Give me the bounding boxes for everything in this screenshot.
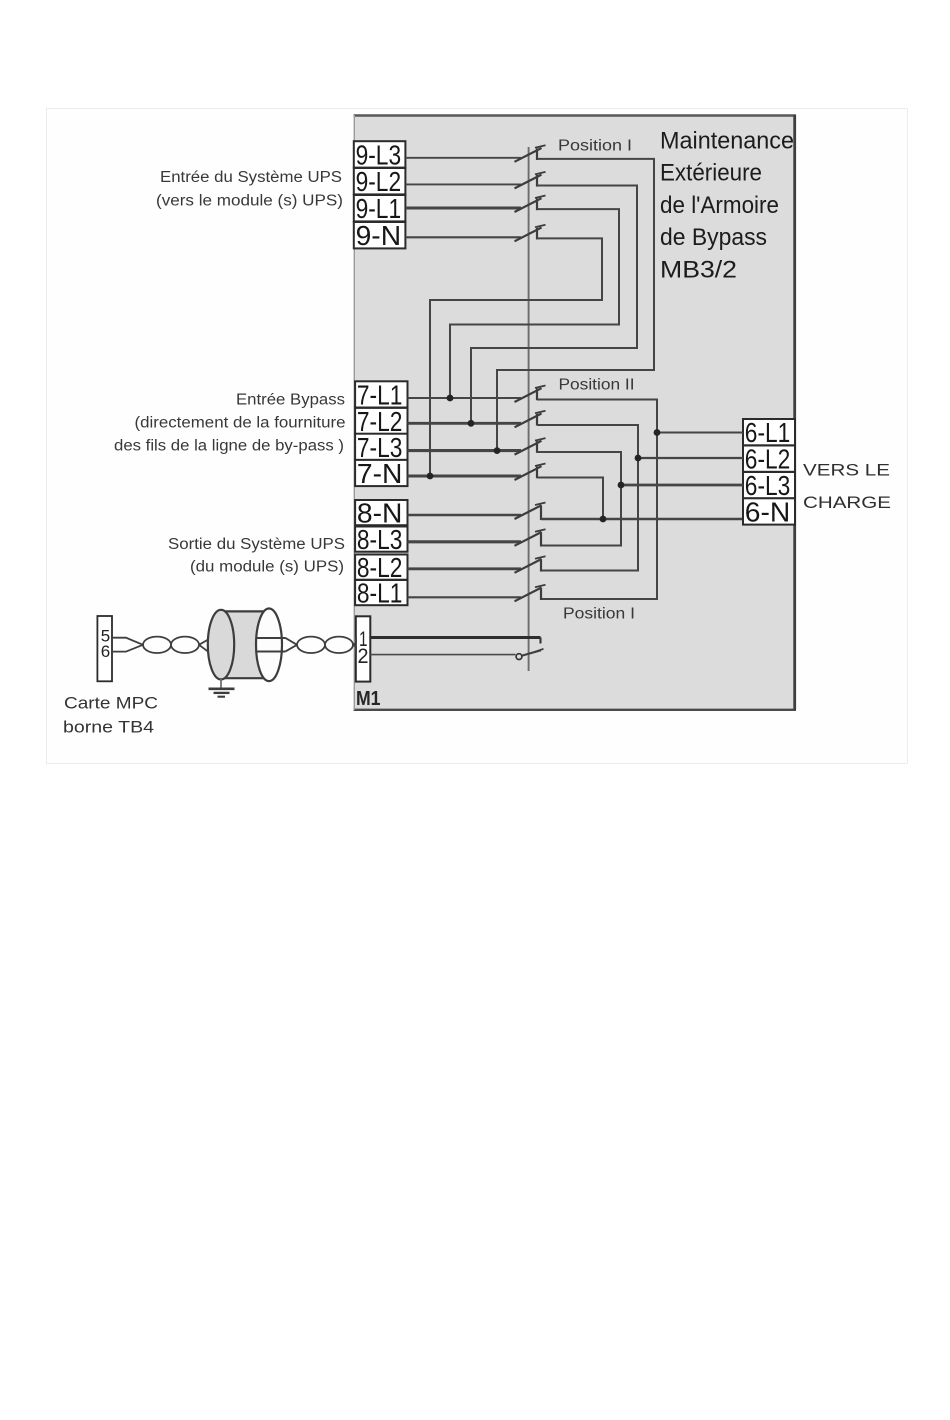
wire 8-N input <box>408 514 522 516</box>
wire 6-L1 feed <box>657 432 743 434</box>
twisted pair left, conductor A <box>112 637 209 653</box>
switch pole (8-L3 row, Position I bottom) <box>515 532 542 546</box>
wire terminal 2 to aux pivot <box>370 654 515 656</box>
terminal 7-N <box>355 460 407 486</box>
wire 8-L2 input <box>408 567 522 570</box>
wire 9-L1 to 7-L1 (crossover) <box>450 209 619 398</box>
switch pole (9-N row, Position I top) <box>515 228 542 242</box>
switch pole (7-L2 row, Position II) <box>515 414 542 428</box>
wire 9-L3 input <box>405 157 521 159</box>
bypass cabinet panel MB3/2 <box>355 115 796 710</box>
aux contact blade <box>522 650 541 655</box>
svg-text:Position I: Position I <box>563 606 635 623</box>
terminal 6-N <box>743 498 795 524</box>
twisted pair right, conductor B <box>285 637 356 653</box>
switch pole (9-L2 row, Position I top) <box>515 175 542 189</box>
wire stub through right cap upper <box>257 637 285 639</box>
wire 6-L2 feed <box>638 457 743 459</box>
node 9-L3/7-L3 <box>494 447 501 454</box>
wire 7-L2 contact to 8-L2 contact <box>537 425 638 571</box>
svg-text:Sortie du Système UPS: Sortie du Système UPS <box>168 536 345 553</box>
EMI core right end cap <box>256 609 282 682</box>
terminal 6-L1 <box>743 419 795 445</box>
terminal 9-L1 <box>354 195 406 221</box>
wire 7-L2 input <box>408 422 522 425</box>
wire 7-L1 input <box>408 397 522 399</box>
node 9-L2/7-L2 <box>468 420 475 427</box>
svg-text:7-N: 7-N <box>357 458 403 489</box>
svg-text:8-L3: 8-L3 <box>357 524 403 555</box>
wire 7-L3 contact to 8-L3 contact <box>537 452 621 546</box>
switch pole (9-L1 row, Position I top) <box>515 198 542 212</box>
panel left border <box>353 115 355 710</box>
svg-text:Entrée Bypass: Entrée Bypass <box>236 392 345 409</box>
aux contact blade tick <box>535 649 544 652</box>
terminal 9-L3 <box>354 141 406 167</box>
twisted pair right, conductor A <box>285 637 356 655</box>
svg-text:de l'Armoire: de l'Armoire <box>660 192 779 219</box>
terminal 7-L3 <box>355 434 407 460</box>
wire 8-L1 input <box>408 596 522 598</box>
svg-text:CHARGE: CHARGE <box>803 494 891 512</box>
node 6-L1 tap <box>654 429 661 436</box>
wire 9-L2 to 7-L2 (crossover) <box>471 186 637 424</box>
wire 6-L3 feed <box>621 484 743 487</box>
svg-text:(vers le module (s) UPS): (vers le module (s) UPS) <box>156 193 343 210</box>
switch pole (8-L2 row, Position I bottom) <box>515 559 542 573</box>
terminal 9-N <box>354 222 406 248</box>
wire 9-L3 to 7-L3 (crossover) <box>497 159 654 451</box>
wire 7-L3 input <box>408 449 522 452</box>
wire stub through right cap lower <box>257 651 285 653</box>
svg-text:(directement de la fourniture: (directement de la fourniture <box>135 415 346 432</box>
terminal 8-L2 <box>355 555 407 580</box>
panel bottom border <box>354 709 797 711</box>
wire 9-L2 input <box>405 183 521 185</box>
svg-text:Maintenance: Maintenance <box>660 127 794 154</box>
svg-text:borne TB4: borne TB4 <box>63 719 154 737</box>
svg-text:MB3/2: MB3/2 <box>660 257 737 284</box>
svg-text:Position I: Position I <box>558 138 632 155</box>
panel right border <box>793 115 796 710</box>
EMI core top edge <box>221 610 269 612</box>
svg-text:VERS LE: VERS LE <box>803 462 890 480</box>
svg-text:de Bypass: de Bypass <box>660 224 767 251</box>
svg-text:Extérieure: Extérieure <box>660 160 762 187</box>
terminal 7-L1 <box>355 381 407 407</box>
wire 8-N contact to 6-N <box>541 518 743 520</box>
terminal 8-L3 <box>355 527 407 552</box>
terminal 8-N <box>355 500 407 525</box>
svg-text:2: 2 <box>358 645 369 668</box>
terminal 7-L2 <box>355 408 407 434</box>
wire 9-L1 input <box>405 207 521 210</box>
terminal 6-L2 <box>743 446 795 472</box>
svg-text:Carte MPC: Carte MPC <box>64 695 158 713</box>
svg-text:Position II: Position II <box>559 377 635 394</box>
node 9-N/7-N <box>427 473 434 480</box>
aux contact fixed tick <box>540 638 542 644</box>
switch M1 mechanical link bar <box>528 147 530 671</box>
svg-text:6-N: 6-N <box>745 496 791 527</box>
ground stem <box>220 679 222 688</box>
svg-text:(du module (s) UPS): (du module (s) UPS) <box>190 559 344 576</box>
node 6-L2 tap <box>635 455 642 462</box>
EMI core left end cap <box>208 610 234 680</box>
switch pole (8-L1 row, Position I bottom) <box>515 588 542 602</box>
wire 8-L3 input <box>408 540 522 543</box>
terminal 9-L2 <box>354 168 406 194</box>
aux contact pivot circle <box>516 654 522 660</box>
terminal 8-L1 <box>355 580 407 605</box>
wire 7-N input <box>408 475 522 478</box>
EMI suppressor core body <box>221 610 269 679</box>
ground bar 3 <box>218 696 226 698</box>
svg-text:des fils de la ligne de by-pas: des fils de la ligne de by-pass ) <box>114 438 344 455</box>
terminal 6-L3 <box>743 472 795 498</box>
svg-text:Entrée du Système UPS: Entrée du Système UPS <box>160 169 342 186</box>
svg-text:M1: M1 <box>356 688 381 710</box>
switch pole (7-L1 row, Position II) <box>515 388 542 402</box>
EMI core bottom edge <box>221 677 269 679</box>
ground bar 2 <box>214 692 230 694</box>
node 6-L3 tap <box>618 482 625 489</box>
wire 7-N contact down to 8-N line <box>537 478 603 520</box>
switch pole (9-L3 row, Position I top) <box>515 148 542 162</box>
figure frame <box>47 109 908 764</box>
wire 9-N to 7-N (crossover) <box>430 238 602 476</box>
wire 9-N input <box>405 236 521 238</box>
svg-text:8-L1: 8-L1 <box>357 578 403 609</box>
svg-text:6: 6 <box>101 642 110 661</box>
wire terminal 1 to aux contact <box>370 636 540 639</box>
switch pole (7-L3 row, Position II) <box>515 441 542 455</box>
ground bar 1 <box>209 687 235 690</box>
twisted pair left, conductor B <box>112 637 211 653</box>
M1 terminal strip 1/2 <box>356 616 371 681</box>
svg-text:9-N: 9-N <box>356 220 402 251</box>
wire 7-L1 contact to 8-L1 contact <box>537 400 657 600</box>
node 6-N tap <box>600 516 607 523</box>
switch pole (7-N row, Position II) <box>515 466 542 480</box>
node 9-L1/7-L1 <box>447 395 454 402</box>
terminal strip 5/6 (Carte MPC TB4) <box>97 616 112 681</box>
panel top border <box>354 114 797 116</box>
switch pole (8-N row, Position I bottom) <box>515 505 542 519</box>
